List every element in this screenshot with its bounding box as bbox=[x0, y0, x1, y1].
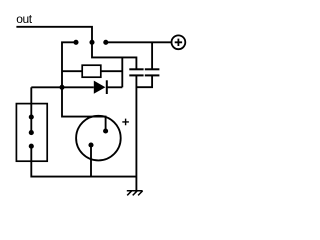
wire resistor right lead to vertical bbox=[101, 70, 123, 72]
capacitor C2 bottom plate bbox=[145, 74, 160, 76]
node battery cell dot 3 bbox=[29, 144, 34, 149]
node junction dot diode wire bbox=[59, 85, 64, 90]
wire out line: from out terminal right, down, right, down to C1 top bbox=[16, 27, 136, 69]
diode D1 cathode bar bbox=[106, 80, 108, 94]
node supply wire start dot bbox=[103, 40, 108, 45]
ground symbol bbox=[127, 191, 143, 196]
resistor R1 body bbox=[82, 65, 101, 77]
node transistor terminal dot B bbox=[88, 142, 93, 147]
wire battery lower lead to bottom rail bbox=[31, 146, 136, 176]
diode D1 triangle bbox=[94, 81, 106, 94]
wire diode cathode lead bbox=[107, 86, 123, 88]
wire C1 bottom down to ground (through rail) bbox=[135, 75, 137, 190]
plus polarity label bbox=[122, 119, 129, 126]
node junction dot on out vertical bbox=[89, 40, 94, 45]
wire C2 bottom link left bbox=[136, 75, 152, 87]
wire diode anode lead bbox=[31, 86, 94, 88]
wire vertical joining top line, resistor, diode bbox=[121, 57, 123, 87]
battery pack rectangle bbox=[16, 104, 47, 162]
node transistor terminal dot A bbox=[103, 128, 108, 133]
wire supply line to plus terminal bbox=[106, 41, 172, 43]
capacitor C2 top plate bbox=[145, 68, 160, 70]
svg-text:out: out bbox=[16, 12, 33, 26]
capacitor C1 top plate bbox=[129, 68, 143, 70]
capacitor C1 bottom plate bbox=[129, 74, 143, 76]
node stub terminal dot bbox=[73, 40, 78, 45]
wire left branch down through battery to bottom rail bbox=[30, 87, 32, 132]
wire transistor emitter to rail bbox=[90, 145, 92, 177]
wire branch down to C2 top bbox=[151, 42, 153, 69]
node battery cell dot 1 bbox=[29, 114, 34, 119]
transistor circle body bbox=[76, 116, 121, 161]
node battery cell dot 2 bbox=[29, 130, 34, 135]
wire left net: stub dot to base rail down to transistor circle bbox=[62, 42, 106, 131]
wire resistor left lead bbox=[62, 70, 82, 72]
supply terminal circled plus bbox=[172, 35, 186, 49]
